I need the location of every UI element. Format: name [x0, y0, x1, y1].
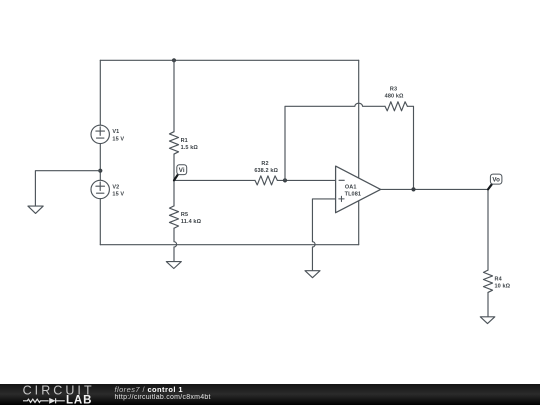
svg-text:V1: V1: [112, 129, 119, 135]
svg-text:R2: R2: [261, 161, 268, 167]
wire to left ground: [35, 171, 100, 206]
svg-text:R3: R3: [390, 87, 397, 93]
CircuitLab logo: [0, 384, 100, 405]
svg-text:OA1: OA1: [345, 184, 357, 190]
wire R5 top lead: [173, 180, 175, 206]
wire V- power riser: [358, 201, 360, 245]
svg-text:Vo: Vo: [492, 176, 500, 183]
resistor R1: [169, 132, 178, 154]
resistor R5: [169, 206, 178, 228]
svg-text:10 kΩ: 10 kΩ: [495, 283, 511, 289]
node label Vi: [174, 165, 187, 181]
voltage source V1: [91, 125, 109, 143]
svg-text:11.4 kΩ: 11.4 kΩ: [181, 219, 202, 225]
ground op-amp plus input: [305, 271, 320, 278]
ground under R4: [480, 317, 495, 324]
op-amp OA1: [336, 166, 381, 213]
node junction output / R3: [411, 187, 415, 191]
wire Vi to R2: [174, 179, 255, 181]
svg-text:R1: R1: [181, 138, 188, 144]
wire op-amp output: [381, 188, 488, 190]
resistor R3: [385, 102, 407, 111]
footer title: [115, 385, 183, 394]
node junction top rail / R1: [172, 58, 176, 62]
wire op-amp plus input to ground with hop: [312, 199, 335, 271]
wire R3 left leg: [285, 103, 385, 180]
resistor R4: [483, 270, 492, 292]
wire output to R4: [487, 189, 489, 270]
wire V1 top lead: [99, 60, 101, 125]
svg-text:638.2 kΩ: 638.2 kΩ: [254, 168, 278, 174]
svg-text:V2: V2: [112, 184, 119, 190]
svg-text:480 kΩ: 480 kΩ: [385, 94, 404, 100]
ground under R5: [166, 262, 181, 269]
wire V1-V2: [99, 144, 101, 181]
wire R1 top lead: [173, 60, 175, 131]
node label Vo: [488, 174, 502, 189]
svg-text:LAB: LAB: [66, 394, 92, 405]
svg-text:R5: R5: [181, 212, 188, 218]
svg-text:1.5 kΩ: 1.5 kΩ: [181, 145, 199, 151]
footer bar: [0, 384, 540, 405]
ground left: [28, 206, 43, 213]
wire R2 to op-amp minus input: [277, 179, 335, 181]
resistor R2: [255, 176, 277, 185]
wire V2 bottom lead: [99, 199, 101, 245]
voltage source V2: [91, 180, 109, 198]
svg-text:Vi: Vi: [179, 167, 185, 174]
wire R3 right leg: [407, 106, 413, 189]
wire V+ power riser with hop: [358, 60, 360, 178]
wire bottom rail: [100, 244, 358, 246]
svg-text:15 V: 15 V: [112, 191, 124, 197]
footer url: [115, 393, 211, 402]
svg-text:R4: R4: [495, 276, 503, 282]
svg-text:TL081: TL081: [345, 191, 362, 197]
node junction V1/V2/ground: [98, 169, 102, 173]
svg-text:15 V: 15 V: [112, 136, 124, 142]
wire top rail: [100, 59, 358, 61]
wire R5 bottom lead with hop: [174, 228, 177, 261]
wire R4 bottom lead: [487, 292, 489, 316]
node junction R2 / R3: [283, 178, 287, 182]
wire R1 to Vi node: [173, 154, 175, 180]
